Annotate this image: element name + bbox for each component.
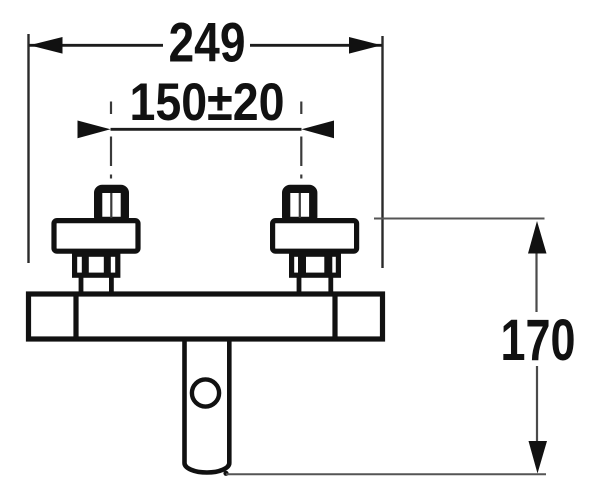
dimension 170: top reference line [374, 218, 545, 220]
right valve: centerline inside cap [299, 193, 301, 218]
faucet body bar [29, 294, 383, 339]
left valve: escutcheon flange [54, 221, 138, 252]
right valve: bonnet nut [292, 254, 339, 275]
left valve: nut inner band right [104, 253, 111, 276]
dimension 249: left arrowhead [30, 37, 63, 54]
spout bottom tick dot [223, 471, 228, 476]
dimension 150±20: left arrowhead (points right) [78, 121, 111, 139]
dimension 249: right arrowhead [349, 37, 382, 54]
spout hole circle [192, 379, 219, 406]
dimension 170: down arrowhead [529, 441, 548, 474]
right valve: escutcheon flange [273, 221, 357, 252]
body bar: right end cap divider [332, 292, 337, 341]
right valve: nut inner band right [324, 253, 332, 276]
svg-text:170: 170 [501, 308, 576, 373]
dimension 249: dimension line left segment [29, 44, 163, 47]
right valve: shank right line [328, 275, 333, 294]
left valve: nut inner band left [82, 253, 89, 276]
dimension 249: right extension line [381, 36, 383, 268]
spout tube [185, 342, 230, 473]
dimension 150±20: right centerline dashes [300, 102, 302, 179]
dimension 170: vertical line lower segment [536, 366, 538, 443]
dimension 150±20: dimension line [111, 128, 302, 131]
right valve: shank left line [297, 275, 302, 294]
left valve: shank right line [109, 275, 114, 294]
dimension 170: bottom reference line [226, 473, 546, 475]
left valve: centerline inside cap [110, 193, 112, 218]
dimension 249: dimension line right segment [250, 44, 382, 47]
right valve: stem cap [286, 189, 313, 221]
dimension 249: left extension line [27, 34, 29, 263]
dimension 170: up arrowhead [528, 221, 547, 254]
body bar: left end cap divider [73, 292, 78, 341]
left valve: bonnet nut [75, 254, 118, 275]
right valve: nut inner band left [298, 253, 306, 276]
dimension 150±20: left centerline dashes [110, 102, 112, 179]
dimension 150±20: right arrowhead (points left) [302, 121, 335, 139]
left valve: shank left line [79, 275, 84, 294]
svg-text:150±20: 150±20 [130, 73, 285, 132]
dimension 170: vertical line upper segment [535, 252, 537, 312]
left valve: stem cap [98, 189, 125, 221]
svg-text:249: 249 [169, 11, 246, 74]
